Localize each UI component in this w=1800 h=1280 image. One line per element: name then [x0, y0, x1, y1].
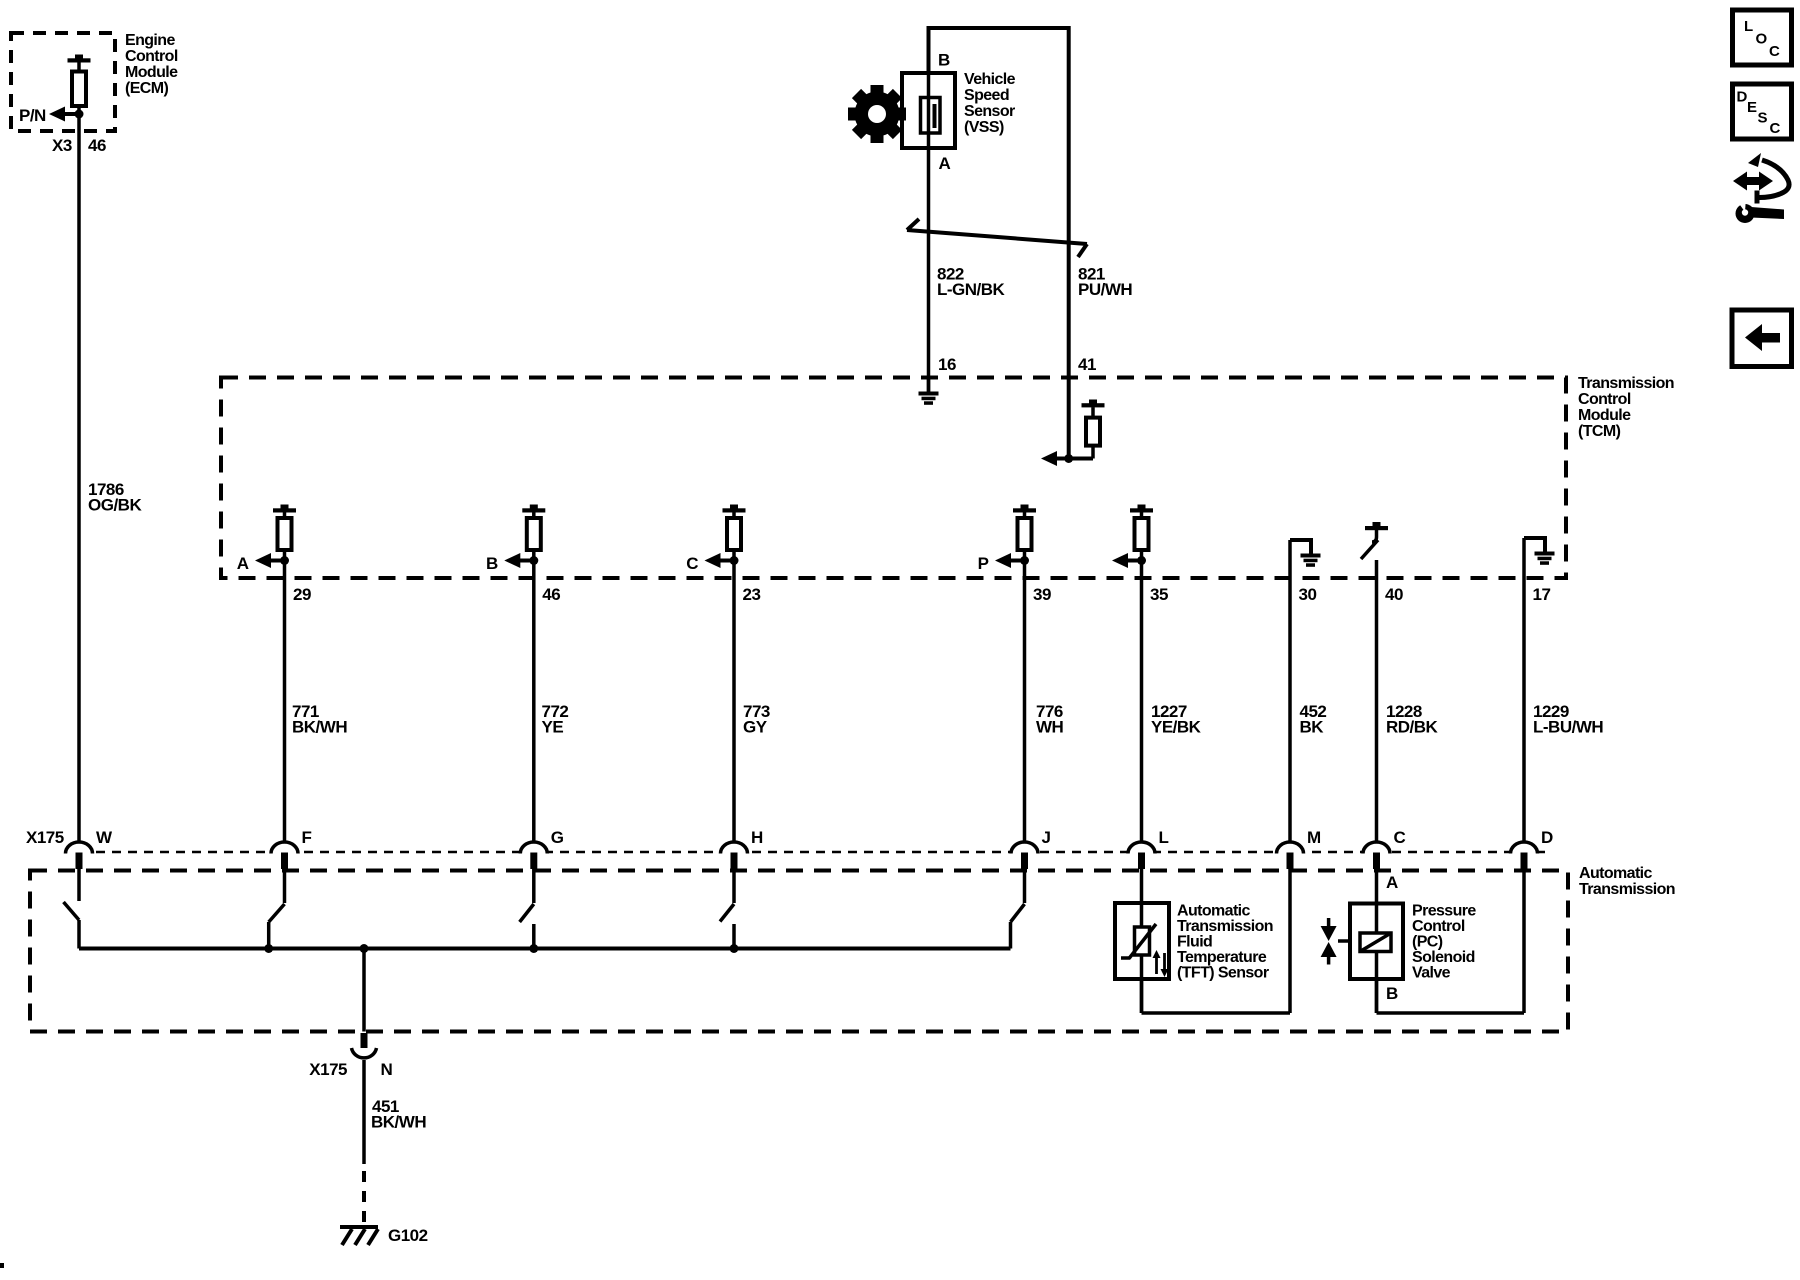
svg-text:Module: Module — [125, 64, 178, 81]
svg-text:S: S — [1758, 110, 1768, 127]
svg-text:35: 35 — [1150, 585, 1168, 604]
svg-text:Pressure: Pressure — [1412, 903, 1476, 920]
svg-text:WH: WH — [1036, 718, 1064, 737]
svg-text:L: L — [1744, 18, 1753, 35]
svg-text:B: B — [486, 554, 498, 573]
svg-text:C: C — [1770, 120, 1781, 137]
svg-text:Module: Module — [1578, 407, 1631, 424]
svg-text:Control: Control — [1412, 918, 1465, 935]
svg-text:39: 39 — [1033, 585, 1051, 604]
svg-text:GY: GY — [743, 718, 768, 737]
svg-text:F: F — [302, 828, 312, 847]
svg-text:D: D — [1541, 828, 1553, 847]
svg-text:Vehicle: Vehicle — [964, 71, 1016, 88]
svg-text:Automatic: Automatic — [1579, 865, 1653, 882]
svg-text:Control: Control — [1578, 391, 1631, 408]
svg-text:40: 40 — [1385, 585, 1403, 604]
svg-text:M: M — [1307, 828, 1321, 847]
svg-text:X175: X175 — [26, 828, 64, 847]
svg-text:P/N: P/N — [19, 106, 46, 125]
svg-text:Sensor: Sensor — [964, 103, 1015, 120]
svg-text:B: B — [1386, 984, 1398, 1003]
svg-text:46: 46 — [88, 136, 106, 155]
svg-text:C: C — [1769, 43, 1780, 60]
svg-text:J: J — [1042, 828, 1051, 847]
svg-text:Solenoid: Solenoid — [1412, 949, 1475, 966]
svg-text:L-BU/WH: L-BU/WH — [1533, 718, 1603, 737]
svg-text:41: 41 — [1078, 355, 1096, 374]
svg-text:17: 17 — [1533, 585, 1551, 604]
svg-text:D: D — [1737, 89, 1748, 106]
svg-text:Temperature: Temperature — [1177, 949, 1267, 966]
svg-text:YE: YE — [542, 718, 564, 737]
svg-text:RD/BK: RD/BK — [1386, 718, 1439, 737]
svg-text:X3: X3 — [52, 136, 72, 155]
svg-text:Engine: Engine — [125, 32, 175, 49]
svg-text:(TFT) Sensor: (TFT) Sensor — [1177, 965, 1269, 982]
svg-text:YE/BK: YE/BK — [1151, 718, 1202, 737]
svg-text:W: W — [96, 828, 113, 847]
svg-text:Automatic: Automatic — [1177, 903, 1251, 920]
svg-text:P: P — [978, 554, 989, 573]
svg-text:(VSS): (VSS) — [964, 119, 1004, 136]
svg-text:C: C — [1394, 828, 1406, 847]
svg-text:Speed: Speed — [964, 87, 1009, 104]
svg-text:L: L — [1159, 828, 1169, 847]
svg-text:G: G — [551, 828, 564, 847]
svg-text:Transmission: Transmission — [1578, 375, 1674, 392]
svg-text:OG/BK: OG/BK — [88, 496, 142, 515]
svg-text:Transmission: Transmission — [1579, 881, 1675, 898]
svg-text:Control: Control — [125, 48, 178, 65]
svg-text:BK/WH: BK/WH — [371, 1113, 426, 1132]
svg-text:30: 30 — [1299, 585, 1317, 604]
svg-text:(PC): (PC) — [1412, 934, 1443, 951]
svg-text:16: 16 — [938, 355, 956, 374]
svg-text:A: A — [1386, 873, 1398, 892]
svg-text:BK/WH: BK/WH — [292, 718, 347, 737]
svg-text:O: O — [1756, 31, 1768, 48]
svg-text:Valve: Valve — [1412, 965, 1451, 982]
svg-text:A: A — [939, 154, 951, 173]
svg-text:L-GN/BK: L-GN/BK — [937, 280, 1006, 299]
svg-text:H: H — [751, 828, 763, 847]
svg-text:C: C — [686, 554, 698, 573]
svg-text:(TCM): (TCM) — [1578, 423, 1621, 440]
svg-text:X175: X175 — [309, 1060, 347, 1079]
svg-text:PU/WH: PU/WH — [1078, 280, 1132, 299]
svg-text:46: 46 — [542, 585, 560, 604]
svg-text:A: A — [237, 554, 249, 573]
svg-text:Fluid: Fluid — [1177, 934, 1212, 951]
svg-text:E: E — [1747, 99, 1757, 116]
svg-text:23: 23 — [743, 585, 761, 604]
svg-text:G102: G102 — [388, 1226, 428, 1245]
svg-text:N: N — [381, 1060, 393, 1079]
svg-text:(ECM): (ECM) — [125, 80, 168, 97]
svg-text:Transmission: Transmission — [1177, 918, 1273, 935]
svg-text:BK: BK — [1300, 718, 1325, 737]
svg-text:B: B — [938, 51, 950, 70]
svg-text:29: 29 — [293, 585, 311, 604]
